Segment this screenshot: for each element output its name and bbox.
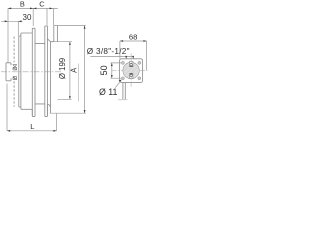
svg-text:Ø 199: Ø 199 (58, 58, 67, 79)
svg-text:68: 68 (129, 32, 138, 41)
svg-text:C: C (39, 0, 45, 8)
svg-text:50: 50 (99, 65, 109, 75)
svg-text:B: B (20, 0, 25, 8)
svg-text:Ø 3/8"-1/2": Ø 3/8"-1/2" (87, 47, 130, 56)
svg-text:A: A (69, 67, 78, 73)
svg-text:Ø 11: Ø 11 (99, 87, 118, 97)
svg-text:L: L (30, 122, 34, 131)
svg-text:30: 30 (23, 13, 32, 22)
